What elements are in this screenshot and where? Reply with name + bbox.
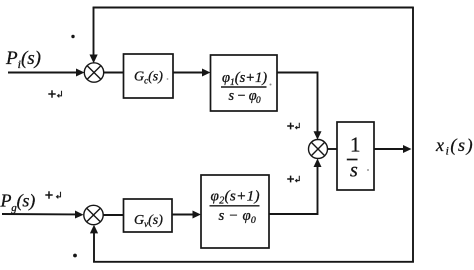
arrowhead into lower summing junction bottom [90,225,98,234]
arrowhead into phi2 block [193,211,201,219]
block phi1 transfer function [211,55,278,111]
wire lower summing junction to Gv block [103,214,124,216]
wire phi1 output down into right summing junction [277,73,318,132]
svg-text:Pi(s): Pi(s) [5,48,41,71]
wire top feedback horizontal [93,7,414,9]
svg-text:s: s [350,160,358,182]
wire Pg input [2,213,76,215]
svg-text:φ1(s+1): φ1(s+1) [222,70,267,88]
arrowhead Pg into lower summing junction [75,211,84,219]
label plus sign at right summing junction lower [287,176,299,183]
wire phi2 output up into right summing junction [269,167,318,215]
summing junction right [309,140,328,159]
wire bottom feedback horizontal [93,261,414,263]
label plus sign at right summing junction upper [287,123,299,130]
block Gc(s) upper controller [124,54,174,98]
wire Pi input [8,72,77,74]
block phi2 transfer function [201,175,269,248]
arrowhead into right summing junction bottom [314,159,322,168]
wire integrator output [374,148,404,150]
dot negative sign upper feedback [71,35,74,38]
wire Gc to phi1 block [173,72,203,74]
wire feedback bottom rise into lower summing junction [93,233,95,263]
label plus sign upper input [48,90,61,97]
svg-text:Gv(s): Gv(s) [134,213,163,229]
svg-text:Gc(s): Gc(s) [134,70,163,86]
dot negative sign lower feedback [73,254,77,258]
arrowhead into phi1 block [202,69,210,77]
block integrator 1/s [337,122,374,190]
arrowhead into right summing junction top [314,131,322,140]
wire right feedback vertical [412,7,414,263]
summing junction lower [84,205,103,224]
arrowhead Pi into upper summing junction [76,69,85,77]
svg-text:s − φ0: s − φ0 [219,208,256,226]
summing junction upper [84,63,103,82]
svg-text:xi(s): xi(s) [435,135,474,158]
label plus sign lower input [45,191,60,198]
svg-text:Pg(s): Pg(s) [0,191,35,215]
wire feedback top drop into upper summing junction [93,7,95,56]
svg-text:1: 1 [350,133,361,157]
arrowhead into upper summing junction top [90,55,98,64]
wire upper summing junction to Gc block [104,72,124,74]
arrowhead output into feedback node [403,145,412,153]
svg-text:φ2(s+1): φ2(s+1) [211,188,260,207]
wire Gv to phi2 block [172,214,193,216]
wire right summing junction to integrator [328,148,339,150]
block Gv(s) lower controller [124,199,173,232]
